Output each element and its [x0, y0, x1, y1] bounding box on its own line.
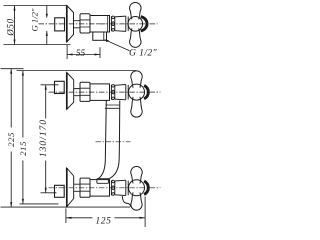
125 dim: right extension: [144, 197, 146, 228]
outlet spout: [93, 32, 107, 40]
55 arrow right: [95, 53, 101, 55]
svg-text:215: 215: [18, 141, 28, 156]
lower bonnet cone: [115, 180, 126, 195]
extension line 225 top: [1, 68, 24, 70]
arrowhead 215 top: [22, 71, 24, 76]
bonnet collar: [111, 16, 114, 31]
dim 130/170 line: [45, 85, 47, 193]
flange face thick line: [66, 6, 68, 43]
riser pipe: [98, 101, 106, 179]
arrowhead G1/2 up: [46, 31, 48, 36]
upper handle bottom lobe: [131, 97, 142, 117]
body centerline tick: [97, 23, 106, 25]
centerline of valve (dash-dot): [39, 23, 158, 25]
upper flange: [67, 73, 74, 110]
upper stem: [74, 89, 80, 96]
55 dim: right extension: [99, 47, 101, 58]
riser mid centerline: [96, 141, 131, 143]
extension line top (Ø50): [4, 5, 68, 7]
wall flange (cone): [67, 6, 74, 43]
lower flange face: [66, 168, 68, 207]
dimension Ø50 line: [14, 6, 16, 45]
svg-text:125: 125: [95, 215, 111, 226]
handle cross arm (dark crescent): [141, 17, 147, 31]
upper crescent: [144, 85, 148, 98]
125 dim: left extension: [65, 209, 67, 224]
dimension G1/2 line lower segment: [46, 31, 48, 45]
upper inlet square (eccentric): [55, 81, 65, 93]
handle top lobe: [130, 2, 141, 19]
collar screw bottom: [112, 29, 115, 32]
arrowhead Ø50 down: [13, 40, 15, 45]
stem: [74, 21, 81, 28]
arrowhead 130/170 bottom: [45, 188, 47, 193]
valve body: [90, 16, 110, 33]
upper collar: [111, 85, 114, 100]
union nut: [80, 14, 90, 33]
dim 225 line: [10, 69, 12, 207]
arrowhead G1/2 down: [46, 14, 48, 19]
ext 130/170 bottom: [41, 192, 57, 194]
upper collar screws: [112, 85, 115, 88]
arrowhead Ø50 up: [13, 6, 15, 11]
55 dimension line: [67, 54, 100, 56]
lower collar screws: [112, 180, 115, 183]
collar center ellipse: [112, 22, 114, 26]
lower crescent: [144, 181, 148, 194]
extension line bottom (Ø50): [4, 44, 71, 46]
svg-text:G 1/2″: G 1/2″: [30, 8, 40, 31]
arrowhead 130/170 top: [45, 85, 47, 90]
handle hub: [128, 17, 143, 32]
lower chrome ring: [126, 180, 128, 195]
extension line 215 top: [17, 70, 137, 72]
lower valve centerline: [49, 187, 161, 189]
svg-text:130/170: 130/170: [39, 119, 49, 157]
extension line 225 bottom: [1, 206, 131, 208]
lower body: [90, 180, 110, 197]
svg-text:Ø50: Ø50: [6, 18, 16, 37]
125 arrow right: [140, 217, 146, 219]
lower hub: [129, 180, 145, 196]
125 dimension line: [66, 217, 145, 219]
arrowhead 215 bottom: [22, 199, 24, 204]
inlet pipe square: [55, 18, 65, 31]
svg-text:55: 55: [76, 49, 86, 59]
lower handle bottom lobe: [131, 192, 142, 210]
lower flange: [67, 168, 74, 207]
lower inlet square (eccentric): [55, 185, 65, 197]
upper valve centerline: [49, 91, 161, 93]
dim 215 line: [22, 71, 24, 204]
arrowhead 225 bottom: [10, 202, 12, 207]
upper chrome ring: [126, 85, 128, 100]
handle bottom lobe: [130, 28, 141, 47]
55 dim: left extension: [66, 45, 68, 59]
upper hub: [129, 84, 145, 100]
125 arrow left: [66, 217, 72, 219]
bonnet cone: [115, 16, 126, 31]
collar screw top: [112, 16, 115, 19]
ext 130/170 top: [41, 84, 59, 86]
55 arrow left: [67, 53, 73, 55]
extension line 215 bottom: [20, 203, 59, 205]
riser collar ticks: [105, 105, 120, 108]
upper union nut: [80, 82, 90, 101]
svg-text:225: 225: [6, 132, 16, 147]
chrome ring: [126, 16, 128, 31]
leader line G1/2: [106, 40, 130, 51]
upper flange face: [66, 73, 68, 110]
riser bottom union: [97, 179, 109, 184]
lower outlet nub: [122, 196, 131, 207]
lower stem: [74, 184, 80, 191]
upper body: [90, 84, 110, 101]
lower union nut: [80, 178, 90, 197]
upper bonnet cone: [115, 85, 126, 100]
upper handle top lobe: [131, 71, 142, 88]
lower handle top lobe: [131, 167, 142, 184]
lower collar: [111, 180, 114, 195]
svg-text:G 1/2″: G 1/2″: [129, 48, 158, 59]
dimension G1/2 line upper segment: [46, 6, 48, 16]
arrowhead 225 top: [10, 69, 12, 74]
leader arrowhead: [104, 39, 109, 42]
